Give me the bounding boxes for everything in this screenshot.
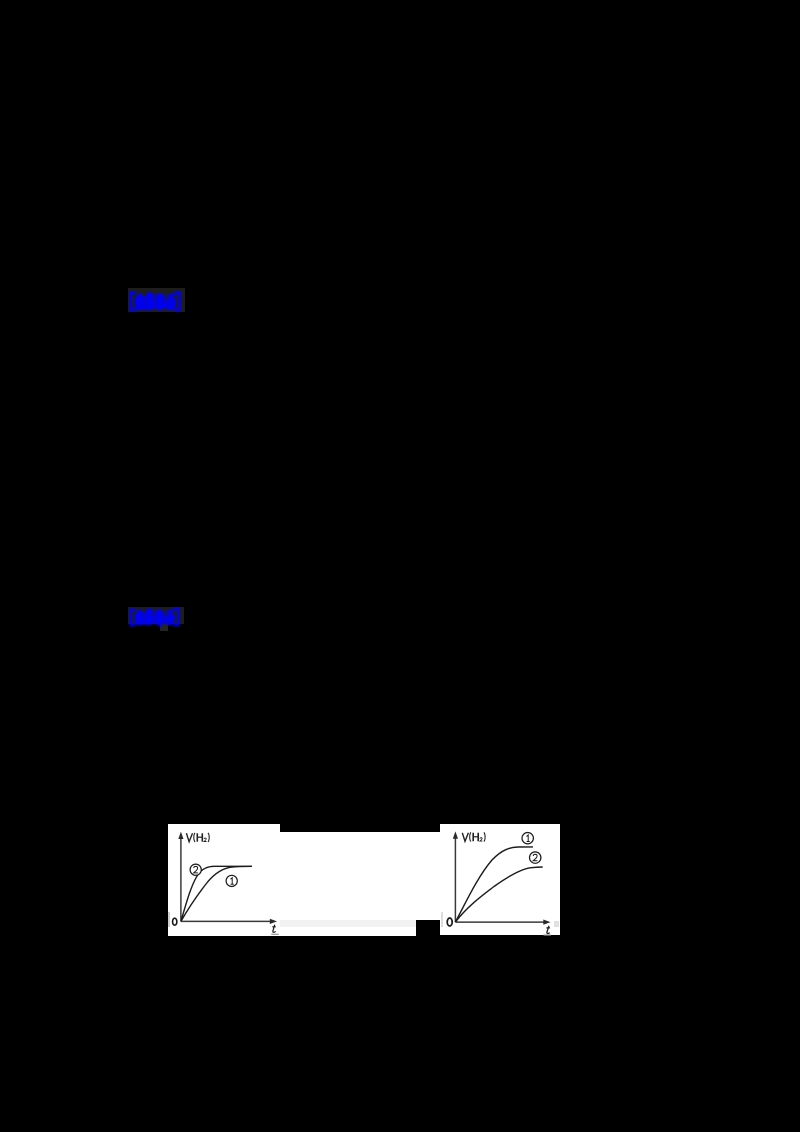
label: circled 2 — [530, 851, 541, 862]
label: circled 1 — [226, 875, 237, 886]
x arrowhead — [543, 919, 550, 924]
y axis — [454, 836, 456, 922]
label: circled 1 — [522, 832, 533, 843]
label: circled 2 — [190, 864, 201, 875]
right graph drawing — [440, 824, 560, 936]
dark gray highlight box behind label 1 — [128, 288, 185, 312]
left graph drawing — [168, 824, 280, 936]
white image box: left graph — [168, 824, 280, 936]
curve 1 (upper) — [455, 846, 533, 921]
blue label 2 (blurred CJK-style blob) — [127, 607, 185, 629]
white image box: right graph — [440, 824, 560, 935]
origin 0 — [447, 918, 452, 926]
faint gray square near right graph axis arrow — [554, 921, 559, 928]
t label — [546, 925, 550, 933]
origin 0 — [173, 918, 177, 925]
faint gray sliver at left edge of left box — [168, 912, 170, 927]
axis label V(H2), hand-drawn glyphs — [462, 832, 485, 841]
t label — [272, 924, 276, 932]
faint vertical gray line inside right box — [441, 912, 443, 927]
x axis — [181, 920, 272, 922]
curve 2 (lower) — [455, 867, 542, 922]
faint gray band in middle strip — [280, 920, 416, 927]
dark gray highlight box behind label 2 — [128, 607, 185, 624]
curve 1 (moderate) — [181, 866, 252, 921]
small gray notch under label 2 — [160, 624, 168, 631]
blue label 1 (blurred CJK-style blob) — [127, 290, 185, 314]
y arrowhead — [178, 831, 183, 838]
t underline — [271, 933, 279, 935]
t underline — [544, 934, 552, 936]
y arrowhead — [453, 831, 458, 838]
y axis — [180, 836, 182, 921]
axis label V(H2), hand-drawn glyphs — [186, 833, 209, 842]
white image strip between graphs — [280, 832, 440, 936]
black notch at bottom-right of middle strip — [416, 920, 440, 936]
curve 2 (steep) — [181, 866, 252, 921]
x arrowhead — [270, 919, 277, 924]
x axis — [455, 921, 545, 923]
